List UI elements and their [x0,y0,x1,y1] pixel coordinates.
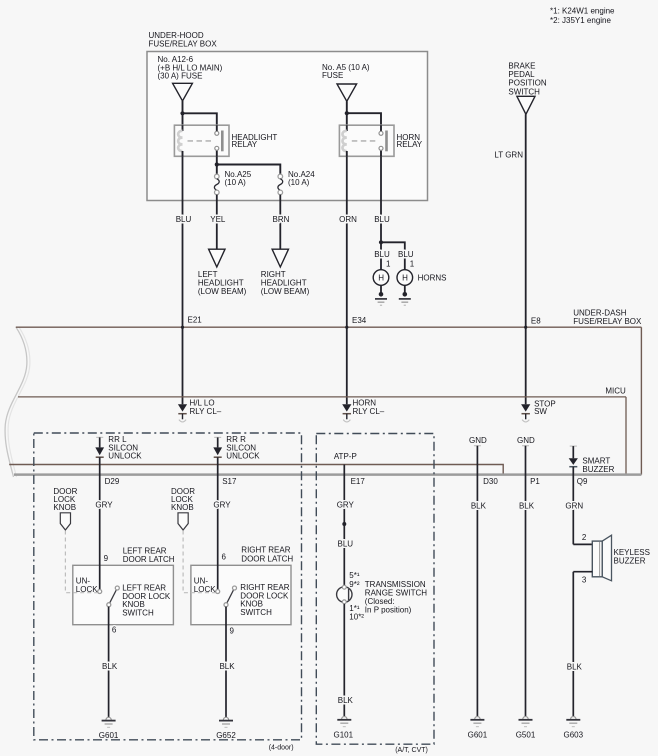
wire fuse A5 to horn relay coil [346,101,348,126]
svg-text:KNOB: KNOB [171,503,194,512]
svg-text:G601: G601 [99,731,119,740]
latch box RIGHT REAR DOOR LATCH [191,565,291,624]
svg-text:FUSE/RELAY BOX: FUSE/RELAY BOX [573,317,642,326]
under-hood fuse/relay box [147,52,428,201]
svg-text:GRY: GRY [95,501,113,510]
svg-text:BLK: BLK [219,662,235,671]
RR R SILCON UNLOCK arrow [214,436,221,438]
svg-text:10*²: 10*² [349,612,364,621]
svg-text:DOOR LATCH: DOOR LATCH [241,555,293,564]
svg-text:(A/T, CVT): (A/T, CVT) [395,747,428,754]
svg-text:E17: E17 [351,477,366,486]
wire headlight relay contact to fuses [216,156,218,174]
svg-text:E8: E8 [531,316,541,325]
svg-text:6: 6 [112,625,117,634]
dash-dot box A/T CVT [316,434,434,745]
junction dot below headlight relay [215,162,219,166]
wire ATP-P trace [9,465,503,475]
svg-text:3: 3 [582,575,587,584]
svg-text:GRN: GRN [565,501,583,510]
svg-text:(10 A): (10 A) [225,178,247,187]
svg-text:BLU: BLU [398,250,414,259]
svg-text:GRY: GRY [213,501,231,510]
wire D29 GRY to left latch [99,457,101,589]
svg-text:DOOR LATCH: DOOR LATCH [123,555,175,564]
left knob dashed link [65,531,97,593]
svg-text:S17: S17 [222,477,237,486]
horn relay coil [342,131,346,151]
wire fuse A12-6 to headlight relay coil [182,101,184,126]
svg-text:FUSE/RELAY BOX: FUSE/RELAY BOX [149,40,218,49]
svg-text:YEL: YEL [210,215,226,224]
svg-text:GND: GND [469,436,487,445]
ground G501 [523,717,528,720]
left headlight connector triangle [209,249,225,267]
fuse No. A12-6 symbol [173,83,193,101]
fuse No.A25 symbol [215,174,220,179]
under-dash band torn left edge [5,327,27,477]
svg-text:BLK: BLK [338,696,354,705]
STOP SW arrow into MICU [521,404,530,411]
under-dash band torn edge echo [8,327,30,477]
svg-text:*2: J35Y1 engine: *2: J35Y1 engine [550,16,611,25]
wire to left horn [380,242,382,269]
svg-text:D29: D29 [105,477,120,486]
horn relay dashed link [352,140,378,142]
left horn ground [380,285,382,294]
svg-text:MICU: MICU [605,386,626,395]
svg-text:9: 9 [230,626,235,635]
H/L LO RLY CL arrow into MICU [178,404,187,411]
smart buzzer arrow [570,445,577,447]
svg-text:SWITCH: SWITCH [508,87,540,96]
headlight relay contact terminals [215,131,219,135]
brake pedal position switch symbol [517,96,535,114]
svg-text:P1: P1 [530,477,540,486]
svg-text:KNOB: KNOB [53,503,76,512]
junction dot A5 [345,111,349,115]
horn relay armature bar [385,131,388,152]
junction dot E34 [345,326,348,329]
svg-text:SW: SW [534,407,547,416]
svg-text:BLK: BLK [471,501,487,510]
horn right symbol [397,270,413,286]
svg-text:BLK: BLK [102,662,118,671]
svg-text:RLY CL–: RLY CL– [190,407,222,416]
right latch switch lever [226,588,235,605]
relay HEADLIGHT RELAY box [174,125,229,156]
svg-text:H: H [378,274,384,283]
wire branch to headlight relay contact [183,113,217,126]
wire LT GRN to E8 [525,114,527,404]
headlight relay armature bar [221,131,224,152]
junction dot horns [379,240,383,244]
svg-text:BLK: BLK [567,662,583,671]
junction dot E21 [181,326,184,329]
wire to keyless buzzer pin 2 [573,543,592,545]
relay HORN RELAY box [339,125,394,156]
splice dot E17 [342,522,346,526]
svg-text:SWITCH: SWITCH [240,608,272,617]
wire ORN horn coil to E34 [346,156,348,404]
svg-text:6: 6 [222,552,227,561]
svg-text:5*¹: 5*¹ [349,571,360,580]
headlight relay contact wire [216,125,218,131]
svg-text:G652: G652 [216,731,236,740]
wire Q9 GRN to keyless buzzer [572,467,574,545]
svg-text:ATP-P: ATP-P [334,452,357,461]
HORN RLY CL arrow into MICU [342,404,351,411]
wire YEL fuse A25 to left headlight [216,195,218,250]
wire S17 GRY to right latch [217,457,219,589]
wire BLK to G603 [572,572,574,716]
headlight relay dashed link [188,140,215,142]
transmission range switch symbol [337,587,352,602]
wire BLU horn contact down [380,156,382,242]
svg-text:BRN: BRN [273,215,290,224]
horn left symbol [373,270,389,286]
under-dash box top edge [16,326,642,328]
MICU box right edge [625,397,627,475]
horn relay coil wire stub top [346,125,348,131]
svg-text:RLY CL–: RLY CL– [353,407,385,416]
svg-text:RELAY: RELAY [397,140,423,149]
svg-text:1: 1 [410,260,415,269]
svg-text:D30: D30 [483,477,498,486]
ground G603 [571,717,576,720]
wire branch to fuse A24 [217,165,280,175]
wire horn branch [381,242,405,269]
wire GND P1 BLK to G501 [522,445,529,447]
right headlight connector triangle [272,249,288,267]
svg-text:(10 A): (10 A) [288,178,310,187]
svg-text:RIGHT REAR: RIGHT REAR [241,545,290,554]
svg-text:G601: G601 [468,730,488,739]
left door lock knob symbol [60,513,70,530]
junction dot E8 [524,326,527,329]
right door lock knob symbol [178,513,188,530]
svg-text:LT GRN: LT GRN [494,150,523,159]
svg-text:(30 A) FUSE: (30 A) FUSE [158,71,203,80]
svg-text:9*²: 9*² [349,580,360,589]
wire BLK to G101 [343,604,345,716]
svg-text:LOCK: LOCK [194,585,216,594]
svg-text:E21: E21 [188,315,203,324]
svg-text:FUSE: FUSE [322,71,343,80]
svg-text:*1: K24W1 engine: *1: K24W1 engine [550,6,615,15]
svg-text:H: H [402,274,408,283]
RR L SILCON UNLOCK arrow [96,436,103,438]
svg-text:BLK: BLK [519,501,535,510]
svg-text:GRY: GRY [337,500,355,509]
wire E17 GRY-BLU to transmission range switch [343,465,345,586]
wire BLU headlight coil to E21 [182,156,184,404]
svg-text:BUZZER: BUZZER [582,465,614,474]
dash-dot box 4-door [34,433,302,740]
left latch switch contacts [98,590,102,594]
svg-text:G501: G501 [516,730,536,739]
svg-text:BUZZER: BUZZER [614,556,646,565]
fuse No. A5 symbol [337,84,357,101]
keyless buzzer symbol [592,541,602,577]
svg-text:BLU: BLU [374,215,390,224]
svg-text:In P position): In P position) [365,606,412,615]
fuse No.A24 symbol [278,174,283,179]
svg-text:UNLOCK: UNLOCK [226,452,260,461]
svg-text:1: 1 [386,260,391,269]
svg-text:UNLOCK: UNLOCK [108,452,142,461]
svg-text:BLU: BLU [176,215,192,224]
right horn ground [404,285,406,294]
svg-text:RELAY: RELAY [232,140,258,149]
horn relay coil wire stub bottom [346,151,348,156]
svg-text:ORN: ORN [339,215,357,224]
svg-text:Q9: Q9 [577,477,588,486]
svg-text:E34: E34 [352,316,367,325]
wire branch to horn relay contact [347,113,381,126]
ground G601 left [106,717,111,720]
wire GND D30 BLK to G601 [474,445,481,447]
svg-text:(LOW BEAM): (LOW BEAM) [261,287,310,296]
svg-text:G101: G101 [334,730,354,739]
svg-text:BLU: BLU [338,540,354,549]
headlight relay coil [178,131,182,151]
svg-text:LOCK: LOCK [76,585,98,594]
latch box LEFT REAR DOOR LATCH [73,565,174,624]
wire keyless buzzer pin 3 [573,571,592,573]
svg-text:(4-door): (4-door) [269,744,294,751]
svg-text:9: 9 [104,554,109,563]
svg-text:BLU: BLU [374,250,390,259]
horn relay contact terminals [379,131,383,135]
MICU box top edge [18,396,626,398]
junction dot A12-6 [180,111,184,115]
svg-text:2: 2 [582,533,587,542]
left latch switch lever [109,588,118,605]
svg-text:HORNS: HORNS [418,273,447,282]
under-dash box right edge [640,327,642,474]
svg-text:SWITCH: SWITCH [122,609,154,618]
svg-text:GND: GND [517,436,535,445]
right knob dashed link [183,531,215,593]
headlight relay coil wire stub top [182,125,184,131]
svg-text:G603: G603 [564,730,584,739]
wire left latch output [108,607,110,717]
ground G652 [223,717,228,720]
wire BRN fuse A24 to right headlight [279,195,281,250]
wire right latch output [225,607,227,717]
MICU box bottom edge [14,473,641,476]
horn relay contact wire [380,125,382,131]
ground G101 [342,717,347,720]
headlight relay coil wire stub bottom [182,151,184,156]
ground G601 right [475,717,480,720]
right latch switch contacts [216,590,220,594]
svg-text:(LOW BEAM): (LOW BEAM) [198,287,247,296]
